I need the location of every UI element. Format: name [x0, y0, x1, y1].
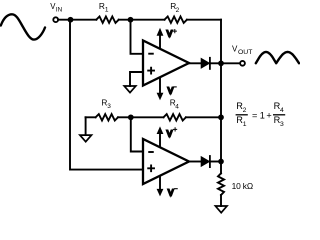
svg-text:1: 1 — [260, 110, 265, 120]
wire U1 output — [189, 62, 201, 64]
equation R2/R1 = 1 + R4/R3 — [236, 101, 286, 128]
ground at U1 + input — [124, 86, 136, 93]
wire U2 inverting input — [131, 117, 143, 151]
svg-text:10 kΩ: 10 kΩ — [232, 181, 253, 191]
wire right rail — [220, 20, 222, 162]
svg-text:2: 2 — [243, 107, 247, 114]
resistor 10k vertical — [218, 162, 224, 207]
U2 minus sign — [149, 151, 153, 153]
U1 minus sign — [149, 53, 153, 55]
U2 V- supply arrow — [157, 177, 164, 197]
input terminal VIN — [53, 17, 58, 22]
op-amp U1 — [143, 41, 189, 86]
resistor R4 — [131, 114, 221, 120]
op-amp U2 — [143, 139, 189, 184]
svg-text:3: 3 — [280, 121, 284, 128]
U2 V+ supply arrow — [157, 126, 164, 146]
resistor R2 — [165, 17, 187, 23]
wire D2 to rail node — [211, 161, 221, 163]
svg-text:V: V — [167, 129, 173, 138]
svg-text:3: 3 — [107, 103, 111, 110]
output terminal VOUT — [240, 61, 245, 66]
wire D1 to output node — [211, 62, 221, 64]
svg-text:+: + — [266, 110, 271, 120]
wire U2 output — [189, 161, 201, 163]
output rectified waveform — [256, 52, 299, 63]
node D2/rail junction — [218, 159, 224, 165]
resistor R1 — [96, 17, 118, 23]
node output junction — [218, 60, 224, 66]
svg-text:4: 4 — [175, 104, 179, 111]
resistor R3 — [86, 114, 131, 120]
U2 plus sign — [148, 165, 154, 171]
svg-text:V: V — [168, 188, 174, 197]
svg-text:1: 1 — [243, 121, 247, 128]
svg-text:4: 4 — [280, 107, 284, 114]
input sine waveform — [1, 14, 45, 39]
svg-text:1: 1 — [105, 6, 109, 13]
wire left rail — [70, 20, 143, 170]
diode D1 — [201, 58, 210, 69]
svg-text:V: V — [168, 87, 174, 96]
svg-text:2: 2 — [176, 7, 180, 14]
node R3/R4 junction — [128, 114, 134, 120]
diode D2 — [201, 156, 210, 167]
svg-text:IN: IN — [56, 7, 63, 14]
U1 V+ supply arrow — [157, 28, 164, 48]
wire to VOUT terminal — [221, 62, 240, 64]
node R1/R2 junction — [128, 17, 134, 23]
U1 V- supply arrow — [157, 78, 164, 101]
svg-text:V: V — [167, 30, 173, 39]
ground at 10k bottom — [215, 206, 227, 213]
U1 plus sign — [148, 68, 154, 74]
node VIN junction — [68, 17, 74, 23]
node R4/rail junction — [218, 114, 224, 120]
wire U1 non-inverting input — [130, 72, 143, 86]
wire VIN to R1 — [58, 19, 96, 21]
wire R2 to right rail corner — [187, 19, 221, 21]
wire U1 inverting input — [131, 20, 144, 54]
ground at R3 left — [80, 117, 92, 141]
svg-text:OUT: OUT — [238, 49, 252, 56]
wire R1 to R2 — [119, 19, 165, 21]
svg-text:=: = — [252, 110, 257, 120]
